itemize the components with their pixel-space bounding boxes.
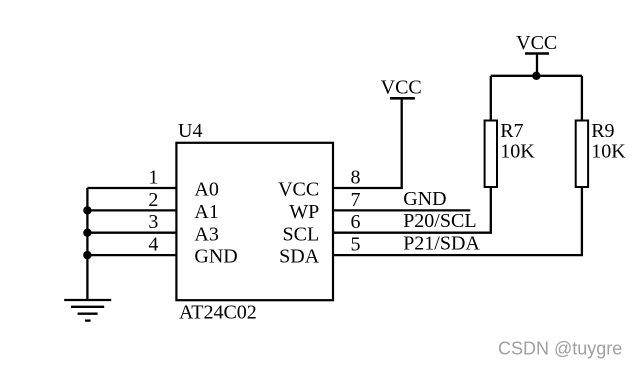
svg-text:SDA: SDA xyxy=(279,246,320,268)
svg-text:GND: GND xyxy=(194,246,237,268)
node junction pin3 xyxy=(83,229,91,237)
wire xyxy=(491,75,582,77)
wire xyxy=(86,188,88,300)
svg-text:VCC: VCC xyxy=(381,76,422,98)
svg-text:VCC: VCC xyxy=(278,179,319,201)
svg-text:GND: GND xyxy=(403,188,446,210)
node junction pin2 xyxy=(83,206,91,214)
wire xyxy=(333,98,402,188)
svg-text:3: 3 xyxy=(148,211,158,233)
svg-text:8: 8 xyxy=(351,167,361,189)
resistor R9 xyxy=(576,76,588,187)
wire xyxy=(333,209,470,211)
svg-text:A0: A0 xyxy=(194,179,218,201)
svg-text:WP: WP xyxy=(289,201,319,223)
power VCC xyxy=(525,54,549,76)
svg-text:5: 5 xyxy=(351,234,361,256)
svg-text:10K: 10K xyxy=(591,141,626,163)
svg-text:A3: A3 xyxy=(194,223,218,245)
wire xyxy=(87,187,176,189)
op-amp U1 xyxy=(176,143,333,300)
svg-text:6: 6 xyxy=(351,211,361,233)
svg-text:AT24C02: AT24C02 xyxy=(179,301,257,323)
svg-text:P20/SCL: P20/SCL xyxy=(403,210,476,232)
resistor R7 xyxy=(485,76,497,187)
svg-text:SCL: SCL xyxy=(283,223,320,245)
svg-text:P21/SDA: P21/SDA xyxy=(403,233,480,255)
svg-text:CSDN @tuygre: CSDN @tuygre xyxy=(498,338,622,358)
wire xyxy=(333,187,491,233)
wire xyxy=(87,209,176,211)
svg-text:R7: R7 xyxy=(500,120,523,142)
wire xyxy=(333,187,582,255)
svg-text:2: 2 xyxy=(148,189,158,211)
svg-text:4: 4 xyxy=(148,234,158,256)
node junction pin4 xyxy=(83,251,91,259)
svg-text:10K: 10K xyxy=(500,141,535,163)
ground xyxy=(64,300,111,321)
svg-text:U4: U4 xyxy=(178,120,202,142)
wire xyxy=(87,232,176,234)
svg-text:1: 1 xyxy=(148,167,158,189)
svg-text:R9: R9 xyxy=(591,120,614,142)
svg-text:7: 7 xyxy=(351,189,361,211)
svg-text:VCC: VCC xyxy=(516,32,557,54)
wire xyxy=(87,254,176,256)
svg-text:A1: A1 xyxy=(194,201,218,223)
power VCC xyxy=(390,97,415,100)
node junction vcc rail xyxy=(532,72,540,80)
